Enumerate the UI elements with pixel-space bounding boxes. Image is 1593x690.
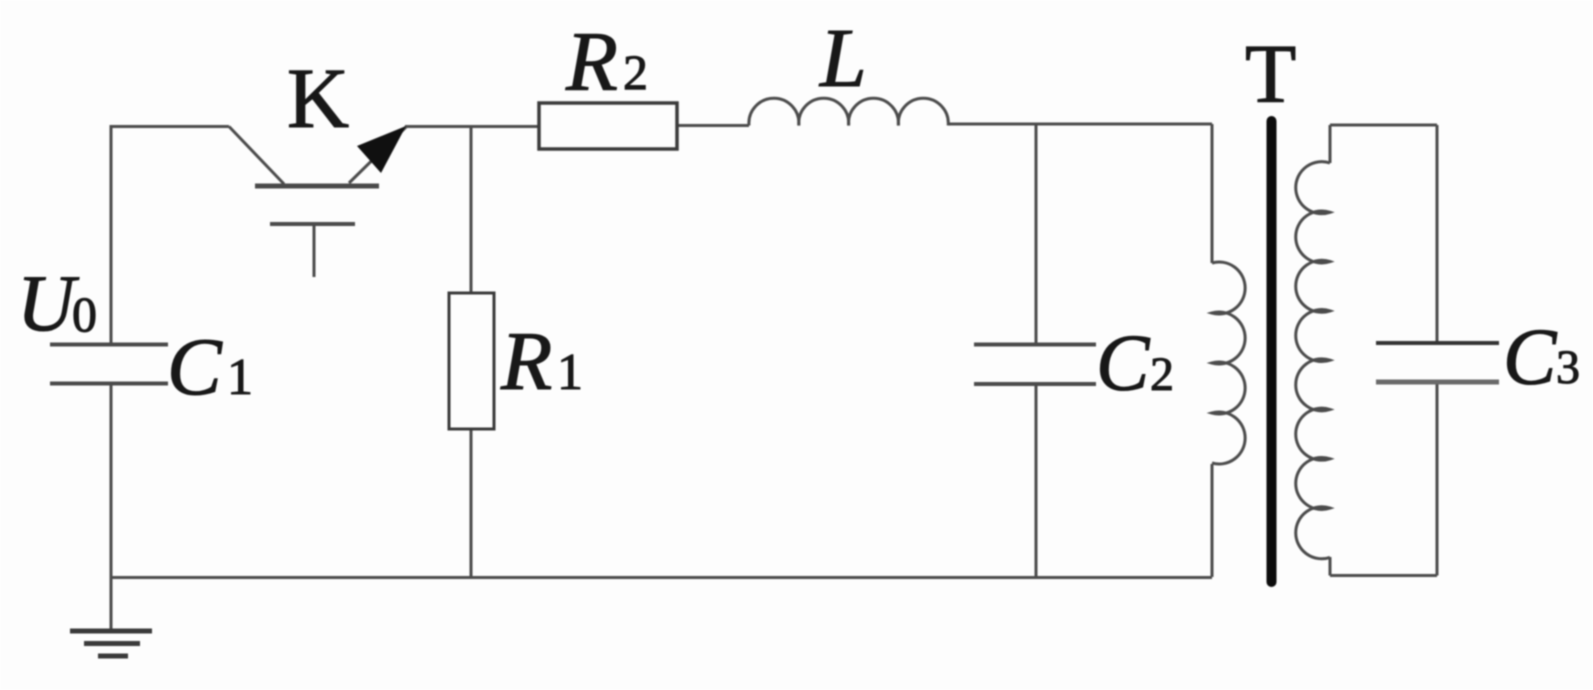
svg-text:1: 1 [557,344,583,401]
svg-text:R: R [500,315,552,408]
svg-text:C: C [1096,320,1151,408]
svg-text:L: L [819,12,867,105]
svg-text:0: 0 [72,286,97,342]
svg-text:R: R [565,15,618,109]
svg-text:1: 1 [227,349,253,406]
svg-text:3: 3 [1556,341,1580,394]
svg-text:2: 2 [1150,348,1174,401]
svg-text:C: C [1503,314,1558,402]
svg-text:2: 2 [623,44,648,100]
svg-text:T: T [1245,28,1296,121]
svg-text:U: U [17,260,80,348]
svg-text:K: K [287,50,349,146]
svg-text:C: C [167,321,223,412]
